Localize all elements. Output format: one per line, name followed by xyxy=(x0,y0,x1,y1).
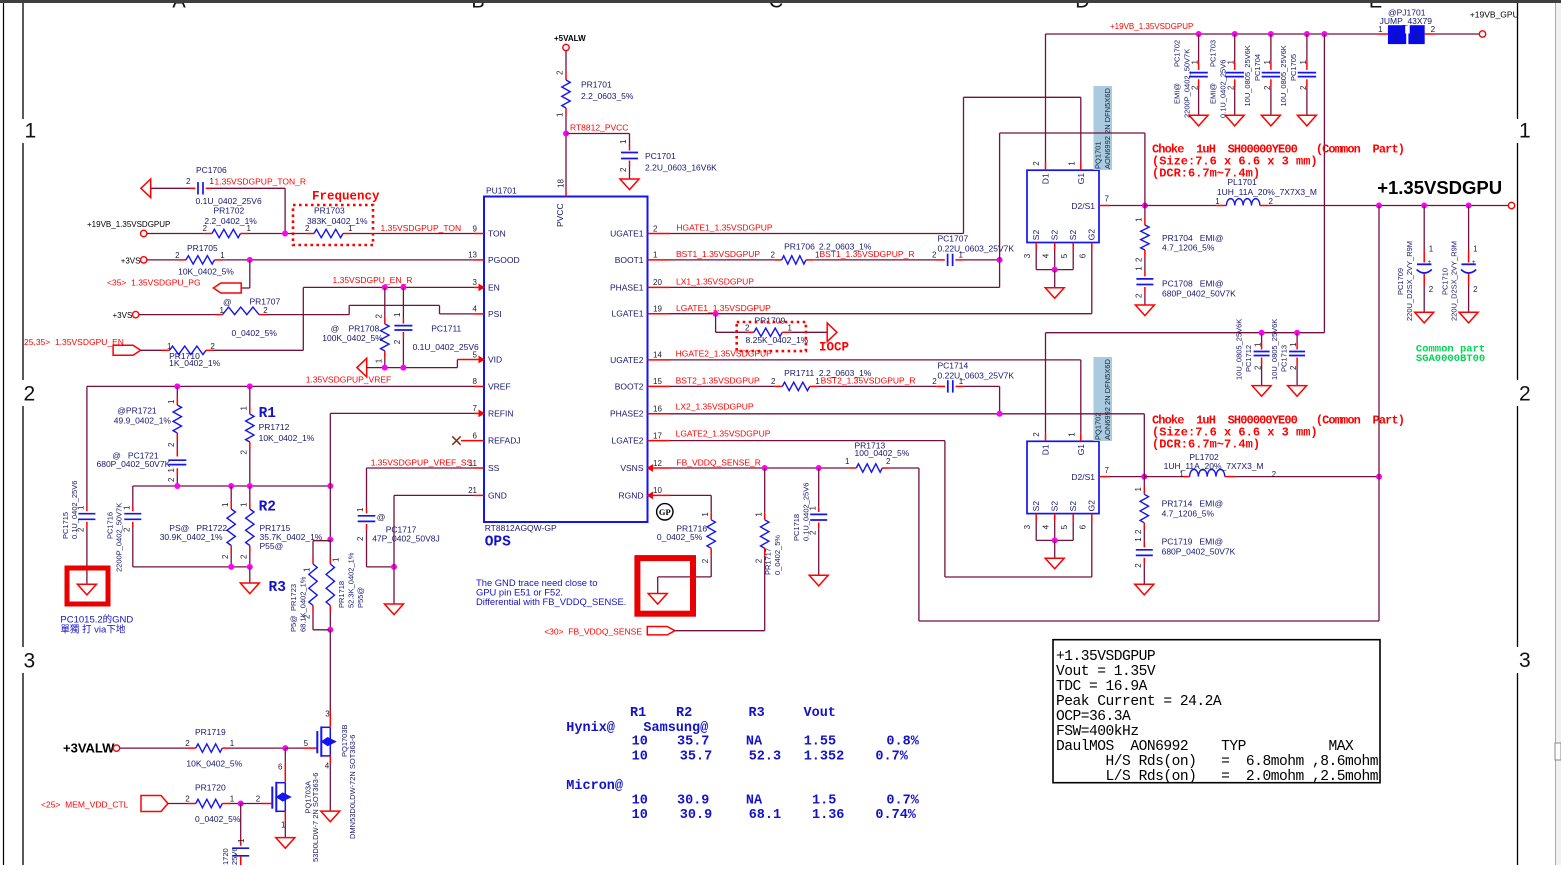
svg-text:18: 18 xyxy=(557,179,566,188)
svg-text:NA: NA xyxy=(746,735,763,750)
svg-text:2: 2 xyxy=(24,383,36,406)
svg-text:@: @ xyxy=(331,323,340,333)
svg-text:PR1719: PR1719 xyxy=(195,727,226,737)
svg-text:PVCC: PVCC xyxy=(555,203,565,227)
svg-text:GND: GND xyxy=(488,490,507,500)
svg-text:PC1709: PC1709 xyxy=(1396,268,1405,295)
svg-text:Vout = 1.35V: Vout = 1.35V xyxy=(1056,664,1156,680)
svg-text:PC1719 EMI@: PC1719 EMI@ xyxy=(1162,537,1224,547)
svg-text:+19VB_GPU: +19VB_GPU xyxy=(1470,10,1519,20)
svg-text:7: 7 xyxy=(473,404,478,413)
svg-text:2: 2 xyxy=(1473,285,1478,294)
svg-text:2: 2 xyxy=(375,314,384,319)
svg-text:2: 2 xyxy=(745,323,750,332)
svg-text:REFADJ: REFADJ xyxy=(488,436,521,446)
svg-text:10U_0805_25V6K: 10U_0805_25V6K xyxy=(1270,319,1279,380)
svg-text:1.35VSDGPUP_VREF: 1.35VSDGPUP_VREF xyxy=(306,375,392,385)
svg-text:5: 5 xyxy=(304,739,309,748)
svg-text:PR1718: PR1718 xyxy=(337,581,346,608)
svg-text:+: + xyxy=(1427,259,1431,266)
svg-text:PR1708: PR1708 xyxy=(349,323,380,333)
svg-text:2: 2 xyxy=(305,224,310,233)
svg-text:68.1: 68.1 xyxy=(749,808,781,823)
svg-text:Differential with FB_VDDQ_SENS: Differential with FB_VDDQ_SENSE. xyxy=(476,596,626,607)
svg-text:@PR1721: @PR1721 xyxy=(117,406,157,416)
svg-text:PC1701: PC1701 xyxy=(645,151,676,161)
svg-text:(DCR:6.7m~7.4m): (DCR:6.7m~7.4m) xyxy=(1152,438,1260,452)
svg-text:PR1720: PR1720 xyxy=(195,782,226,792)
svg-text:RGND: RGND xyxy=(618,490,643,500)
svg-text:1: 1 xyxy=(167,399,176,404)
svg-text:1: 1 xyxy=(25,120,37,143)
svg-text:PQ1701: PQ1701 xyxy=(1094,141,1103,169)
svg-text:PC1704: PC1704 xyxy=(1253,54,1262,81)
svg-text:68.1K_0402_1%: 68.1K_0402_1% xyxy=(299,576,308,632)
svg-text:2: 2 xyxy=(185,795,190,804)
svg-text:PHASE1: PHASE1 xyxy=(610,282,644,292)
svg-text:1: 1 xyxy=(1135,217,1144,222)
svg-text:S2: S2 xyxy=(1068,230,1078,241)
svg-text:1.36: 1.36 xyxy=(812,808,844,823)
svg-text:10U_0805_25V6K: 10U_0805_25V6K xyxy=(1279,45,1288,106)
svg-text:2: 2 xyxy=(303,614,312,619)
svg-text:(DCR:6.7m~7.4m): (DCR:6.7m~7.4m) xyxy=(1152,167,1260,181)
svg-text:OPS: OPS xyxy=(485,535,511,551)
svg-text:30.9K_0402_1%: 30.9K_0402_1% xyxy=(160,532,223,542)
svg-text:2: 2 xyxy=(1191,85,1200,90)
svg-text:BOOT2: BOOT2 xyxy=(615,381,644,391)
svg-text:1: 1 xyxy=(230,795,235,804)
svg-text:2: 2 xyxy=(1254,365,1263,370)
svg-text:1: 1 xyxy=(393,312,402,317)
svg-text:PR1711: PR1711 xyxy=(784,368,814,378)
svg-text:+3VALW: +3VALW xyxy=(63,741,115,756)
svg-text:D1: D1 xyxy=(1041,444,1051,455)
svg-text:3: 3 xyxy=(473,278,478,287)
svg-text:2: 2 xyxy=(263,306,268,315)
svg-text:VSNS: VSNS xyxy=(620,463,643,473)
svg-text:1: 1 xyxy=(1067,432,1076,437)
svg-text:PC1702: PC1702 xyxy=(1173,40,1182,67)
svg-text:PR1709: PR1709 xyxy=(755,316,786,326)
svg-text:Vout: Vout xyxy=(804,706,836,721)
svg-text:P55@: P55@ xyxy=(356,587,365,608)
svg-text:P5@ PR1723: P5@ PR1723 xyxy=(289,584,298,632)
svg-text:EMI@: EMI@ xyxy=(1173,83,1182,104)
svg-text:4.7_1206_5%: 4.7_1206_5% xyxy=(1162,509,1215,519)
svg-text:+3VS: +3VS xyxy=(121,256,141,265)
svg-text:2: 2 xyxy=(771,377,776,386)
svg-text:UGATE1: UGATE1 xyxy=(610,228,644,238)
svg-text:1: 1 xyxy=(1135,266,1144,271)
svg-text:PSI: PSI xyxy=(488,309,502,319)
svg-text:4: 4 xyxy=(1042,253,1051,258)
svg-text:1: 1 xyxy=(1254,342,1263,347)
svg-text:2.2_0603_5%: 2.2_0603_5% xyxy=(581,91,634,101)
svg-text:G2: G2 xyxy=(1087,229,1097,241)
svg-text:SS: SS xyxy=(488,463,500,473)
svg-text:HGATE1_1.35VSDGPUP: HGATE1_1.35VSDGPUP xyxy=(676,222,773,232)
svg-text:+1.35VSDGPU: +1.35VSDGPU xyxy=(1377,177,1502,198)
svg-text:1: 1 xyxy=(375,358,384,363)
svg-text:Hynix@: Hynix@ xyxy=(566,721,615,736)
svg-text:5: 5 xyxy=(1060,524,1069,529)
svg-text:1.35VSDGPUP_VREF_SS: 1.35VSDGPUP_VREF_SS xyxy=(371,458,473,468)
svg-text:1: 1 xyxy=(230,739,235,748)
svg-text:5: 5 xyxy=(1060,253,1069,258)
svg-text:+19VB_1.35VSDGPUP: +19VB_1.35VSDGPUP xyxy=(1110,22,1193,31)
svg-text:2: 2 xyxy=(256,795,261,804)
svg-text:1: 1 xyxy=(1215,197,1220,206)
svg-text:PC1708 EMI@: PC1708 EMI@ xyxy=(1162,279,1224,289)
svg-text:1: 1 xyxy=(356,507,365,512)
svg-text:25,35> 1.35VSDGPU_EN: 25,35> 1.35VSDGPU_EN xyxy=(24,337,124,347)
svg-text:2: 2 xyxy=(1429,285,1434,294)
svg-text:2: 2 xyxy=(185,739,190,748)
svg-text:1: 1 xyxy=(240,406,249,411)
svg-text:2: 2 xyxy=(653,224,658,233)
svg-text:PR1702: PR1702 xyxy=(214,206,245,216)
svg-text:10K_0402_5%: 10K_0402_5% xyxy=(178,267,234,277)
svg-text:PGOOD: PGOOD xyxy=(488,255,520,265)
svg-text:1: 1 xyxy=(1394,31,1399,40)
svg-text:2: 2 xyxy=(203,224,208,233)
svg-text:6: 6 xyxy=(473,431,478,440)
svg-text:Micron@: Micron@ xyxy=(566,779,623,794)
svg-text:S2: S2 xyxy=(1068,501,1078,512)
svg-text:2200P_0402_50V7K: 2200P_0402_50V7K xyxy=(115,503,124,572)
svg-text:4: 4 xyxy=(473,305,478,314)
svg-text:1: 1 xyxy=(123,505,132,510)
svg-text:BST2_1.35VSDGPUP_R: BST2_1.35VSDGPUP_R xyxy=(821,375,916,385)
svg-text:220U_D2SX_2VY_R9M: 220U_D2SX_2VY_R9M xyxy=(1405,241,1414,321)
svg-text:PR1703: PR1703 xyxy=(314,206,345,216)
svg-text:1: 1 xyxy=(701,512,710,517)
svg-text:LX2_1.35VSDGPUP: LX2_1.35VSDGPUP xyxy=(676,402,754,412)
svg-text:100_0402_5%: 100_0402_5% xyxy=(855,448,910,458)
svg-text:1: 1 xyxy=(959,377,964,386)
svg-text:52.3: 52.3 xyxy=(749,750,781,765)
svg-text:EN: EN xyxy=(488,282,500,292)
svg-text:R3: R3 xyxy=(269,580,286,596)
svg-text:<30> FB_VDDQ_SENSE: <30> FB_VDDQ_SENSE xyxy=(544,626,642,636)
svg-text:OCP=36.3A: OCP=36.3A xyxy=(1056,709,1131,725)
svg-text:1: 1 xyxy=(1134,487,1143,492)
svg-text:D2/S1: D2/S1 xyxy=(1071,472,1095,482)
svg-text:R2: R2 xyxy=(259,500,276,516)
svg-text:R2: R2 xyxy=(676,706,692,721)
svg-text:2: 2 xyxy=(1299,85,1308,90)
svg-text:2: 2 xyxy=(186,177,191,186)
svg-text:PHASE2: PHASE2 xyxy=(610,409,644,419)
svg-text:LGATE2_1.35VSDGPUP: LGATE2_1.35VSDGPUP xyxy=(676,428,771,438)
svg-text:PR1714 EMI@: PR1714 EMI@ xyxy=(1162,499,1224,509)
svg-text:10U_0805_25V6K: 10U_0805_25V6K xyxy=(1243,45,1252,106)
svg-text:1.35VSDGPUP_TON_R: 1.35VSDGPUP_TON_R xyxy=(215,176,307,186)
svg-text:VID: VID xyxy=(488,354,502,364)
svg-text:10: 10 xyxy=(632,808,648,823)
svg-text:PR1701: PR1701 xyxy=(581,80,612,90)
svg-text:2: 2 xyxy=(1135,293,1144,298)
svg-text:7: 7 xyxy=(1105,195,1110,204)
svg-text:1: 1 xyxy=(1473,245,1478,254)
svg-text:1: 1 xyxy=(1289,342,1298,347)
svg-text:680P_0402_50V7K: 680P_0402_50V7K xyxy=(1162,289,1236,299)
svg-text:0.74%: 0.74% xyxy=(875,808,916,823)
svg-text:3: 3 xyxy=(1023,253,1032,258)
svg-text:1: 1 xyxy=(754,512,763,517)
svg-text:2: 2 xyxy=(932,250,937,259)
svg-text:1: 1 xyxy=(220,306,225,315)
svg-text:2: 2 xyxy=(393,339,402,344)
svg-text:+1.35VSDGPUP: +1.35VSDGPUP xyxy=(1056,649,1155,665)
svg-text:D2/S1: D2/S1 xyxy=(1071,201,1095,211)
svg-text:30.9: 30.9 xyxy=(677,794,709,809)
svg-text:BOOT1: BOOT1 xyxy=(615,255,644,265)
svg-text:G1: G1 xyxy=(1076,173,1086,185)
svg-text:25V6: 25V6 xyxy=(230,847,239,865)
svg-text:1: 1 xyxy=(1067,161,1076,166)
svg-text:1.55: 1.55 xyxy=(804,735,836,750)
svg-text:6: 6 xyxy=(1079,253,1088,258)
svg-text:2: 2 xyxy=(240,554,249,559)
svg-text:D1: D1 xyxy=(1041,173,1051,184)
svg-text:2: 2 xyxy=(167,477,176,482)
svg-text:1: 1 xyxy=(220,251,225,260)
svg-text:PC1713: PC1713 xyxy=(1280,345,1289,372)
svg-text:BST1_1.35VSDGPUP: BST1_1.35VSDGPUP xyxy=(676,249,760,259)
svg-text:16: 16 xyxy=(653,405,662,414)
svg-text:2: 2 xyxy=(1032,432,1041,437)
svg-text:2: 2 xyxy=(210,342,215,351)
svg-text:10K_0402_1%: 10K_0402_1% xyxy=(259,433,315,443)
svg-text:RT8812AGQW-GP: RT8812AGQW-GP xyxy=(485,523,557,533)
svg-text:PC1710: PC1710 xyxy=(1441,268,1450,295)
svg-text:Frequency: Frequency xyxy=(312,190,380,204)
svg-text:PC1711: PC1711 xyxy=(431,323,461,333)
svg-text:2: 2 xyxy=(619,167,628,172)
svg-text:1: 1 xyxy=(348,224,353,233)
svg-text:NA: NA xyxy=(746,794,763,809)
svg-text:1: 1 xyxy=(1191,60,1200,65)
svg-text:2: 2 xyxy=(356,536,365,541)
svg-text:15: 15 xyxy=(653,377,662,386)
svg-text:1: 1 xyxy=(247,224,252,233)
svg-text:0_0402_5%: 0_0402_5% xyxy=(195,814,241,824)
svg-text:1: 1 xyxy=(788,323,793,332)
svg-text:<35> 1.35VSDGPU_PG: <35> 1.35VSDGPU_PG xyxy=(107,277,201,287)
svg-text:DMN53D0LDW-72N SOT363-6: DMN53D0LDW-72N SOT363-6 xyxy=(348,735,357,839)
svg-text:8.25K_0402_1%: 8.25K_0402_1% xyxy=(746,335,809,345)
svg-text:10: 10 xyxy=(632,794,648,809)
svg-text:1: 1 xyxy=(77,505,86,510)
svg-text:G1: G1 xyxy=(1076,444,1086,456)
svg-text:1: 1 xyxy=(1299,60,1308,65)
svg-text:2: 2 xyxy=(886,457,891,466)
svg-text:PC1712: PC1712 xyxy=(1244,345,1253,372)
svg-text:JUMP_43X79: JUMP_43X79 xyxy=(1380,16,1433,26)
svg-text:14: 14 xyxy=(653,351,662,360)
svg-text:PC1716: PC1716 xyxy=(106,512,115,539)
svg-text:30.9: 30.9 xyxy=(680,808,712,823)
svg-text:G2: G2 xyxy=(1087,500,1097,512)
svg-text:PC1718: PC1718 xyxy=(792,514,801,541)
svg-text:PR1706: PR1706 xyxy=(784,241,815,251)
svg-text:9: 9 xyxy=(473,224,478,233)
svg-text:13: 13 xyxy=(468,251,477,260)
svg-text:R3: R3 xyxy=(749,706,765,721)
svg-text:2: 2 xyxy=(167,442,176,447)
svg-text:IOCP: IOCP xyxy=(819,340,849,354)
svg-text:S2: S2 xyxy=(1031,501,1041,512)
svg-text:1: 1 xyxy=(237,838,246,843)
svg-text:1.35VSDGPU_EN_R: 1.35VSDGPU_EN_R xyxy=(333,275,413,285)
svg-text:<25> MEM_VDD_CTL: <25> MEM_VDD_CTL xyxy=(41,800,129,810)
svg-text:1: 1 xyxy=(221,502,230,507)
svg-text:3: 3 xyxy=(24,650,36,673)
svg-text:2: 2 xyxy=(77,527,86,532)
svg-text:1K_0402_1%: 1K_0402_1% xyxy=(169,358,220,368)
svg-text:R1: R1 xyxy=(630,706,646,721)
svg-text:2: 2 xyxy=(932,377,937,386)
svg-text:1: 1 xyxy=(303,567,312,572)
svg-text:3: 3 xyxy=(1519,649,1531,672)
svg-text:單獨 打 via下地: 單獨 打 via下地 xyxy=(60,623,125,635)
svg-text:47P_0402_50V8J: 47P_0402_50V8J xyxy=(372,533,440,543)
svg-text:1: 1 xyxy=(1429,245,1434,254)
svg-text:0.1U_0402_25V6: 0.1U_0402_25V6 xyxy=(196,196,262,206)
svg-text:2: 2 xyxy=(1415,31,1420,40)
svg-text:1.352: 1.352 xyxy=(804,750,845,765)
svg-text:7: 7 xyxy=(1105,466,1110,475)
svg-text:100K_0402_5%: 100K_0402_5% xyxy=(322,333,383,343)
svg-text:680P_0402_50V7K: 680P_0402_50V7K xyxy=(97,459,171,469)
svg-text:PC1707: PC1707 xyxy=(938,234,969,244)
svg-text:BST1_1.35VSDGPUP_R: BST1_1.35VSDGPUP_R xyxy=(820,249,915,259)
svg-text:1: 1 xyxy=(1134,537,1143,542)
svg-text:+19VB_1.35VSDGPUP: +19VB_1.35VSDGPUP xyxy=(87,220,170,229)
svg-text:VREF: VREF xyxy=(488,381,511,391)
svg-text:4: 4 xyxy=(325,762,330,771)
svg-text:UGATE2: UGATE2 xyxy=(610,355,644,365)
svg-text:S2: S2 xyxy=(1050,501,1060,512)
svg-text:FSW=400kHz: FSW=400kHz xyxy=(1056,724,1139,740)
svg-text:1: 1 xyxy=(556,112,565,117)
svg-text:PR1707: PR1707 xyxy=(250,297,281,307)
svg-text:49.9_0402_1%: 49.9_0402_1% xyxy=(114,415,172,425)
svg-text:2: 2 xyxy=(123,527,132,532)
svg-text:1UH_11A_20%_7X7X3_M: 1UH_11A_20%_7X7X3_M xyxy=(1217,187,1317,197)
svg-text:R1: R1 xyxy=(259,406,277,422)
svg-text:S2: S2 xyxy=(1050,230,1060,241)
svg-text:680P_0402_50V7K: 680P_0402_50V7K xyxy=(1162,547,1236,557)
svg-text:1: 1 xyxy=(845,457,850,466)
svg-text:4.7_1206_5%: 4.7_1206_5% xyxy=(1162,243,1215,253)
svg-text:12: 12 xyxy=(653,459,662,468)
svg-text:2: 2 xyxy=(1134,529,1143,534)
svg-text:LX1_1.35VSDGPUP: LX1_1.35VSDGPUP xyxy=(676,277,754,287)
svg-text:10U_0805_25V6K: 10U_0805_25V6K xyxy=(1235,319,1244,380)
svg-text:220U_D2SX_2VY_R9M: 220U_D2SX_2VY_R9M xyxy=(1450,241,1459,321)
svg-text:2: 2 xyxy=(1135,257,1144,262)
svg-text:PC1715: PC1715 xyxy=(61,512,70,539)
svg-text:PR1704 EMI@: PR1704 EMI@ xyxy=(1162,233,1224,243)
svg-text:GP: GP xyxy=(659,507,671,517)
svg-text:AON6992 2N DFN5X6D: AON6992 2N DFN5X6D xyxy=(1103,359,1112,440)
svg-text:2: 2 xyxy=(1269,197,1274,206)
svg-text:6: 6 xyxy=(278,763,283,772)
svg-text:3: 3 xyxy=(1023,524,1032,529)
svg-text:1.5: 1.5 xyxy=(812,794,836,809)
svg-text:2200P_0402_50V7K: 2200P_0402_50V7K xyxy=(1183,49,1192,118)
svg-text:2.2U_0603_16V6K: 2.2U_0603_16V6K xyxy=(645,163,717,173)
svg-text:+3VS: +3VS xyxy=(113,311,133,320)
svg-text:2: 2 xyxy=(1227,85,1236,90)
svg-text:53D0LDW-7 2N SOT363-6: 53D0LDW-7 2N SOT363-6 xyxy=(311,773,320,862)
svg-text:SGA0000BT00: SGA0000BT00 xyxy=(1416,353,1485,365)
svg-text:PR1705: PR1705 xyxy=(187,243,218,253)
svg-text:19: 19 xyxy=(653,305,662,314)
svg-text:2: 2 xyxy=(754,558,763,563)
svg-text:1: 1 xyxy=(1519,120,1531,143)
svg-text:2: 2 xyxy=(556,70,565,75)
svg-text:LGATE1: LGATE1 xyxy=(612,309,644,319)
svg-text:0.1U_0402_25V6: 0.1U_0402_25V6 xyxy=(1219,60,1228,118)
svg-text:35.7: 35.7 xyxy=(680,750,712,765)
svg-text:10K_0402_5%: 10K_0402_5% xyxy=(186,759,242,769)
svg-text:LGATE2: LGATE2 xyxy=(612,436,644,446)
svg-text:PC1703: PC1703 xyxy=(1209,40,1218,67)
svg-text:2: 2 xyxy=(240,450,249,455)
svg-text:PC1705: PC1705 xyxy=(1289,54,1298,81)
svg-text:PQ1702: PQ1702 xyxy=(1094,412,1103,440)
svg-text:0_0402_5%: 0_0402_5% xyxy=(232,328,278,338)
svg-text:2: 2 xyxy=(701,558,710,563)
svg-text:10: 10 xyxy=(632,735,648,750)
svg-text:1720: 1720 xyxy=(221,848,230,865)
svg-text:EMI@: EMI@ xyxy=(1209,83,1218,104)
svg-text:2: 2 xyxy=(771,250,776,259)
svg-text:AON6992 2N DFN5X6D: AON6992 2N DFN5X6D xyxy=(1103,88,1112,169)
svg-text:H/S Rds(on) = 6.8mohm ,8.6m: H/S Rds(on) = 6.8mohm ,8.6mohm xyxy=(1056,754,1379,770)
svg-text:LGATE1_1.35VSDGPUP: LGATE1_1.35VSDGPUP xyxy=(676,303,771,313)
svg-text:P55@: P55@ xyxy=(260,541,284,551)
svg-text:2: 2 xyxy=(1134,563,1143,568)
svg-text:52.3K_0402_1%: 52.3K_0402_1% xyxy=(347,552,356,608)
svg-text:10: 10 xyxy=(632,750,648,765)
svg-text:1: 1 xyxy=(619,139,628,144)
svg-text:@: @ xyxy=(223,297,232,307)
svg-text:0.7%: 0.7% xyxy=(886,794,919,809)
svg-text:1: 1 xyxy=(1227,60,1236,65)
svg-text:+: + xyxy=(1472,259,1476,266)
svg-text:0.8%: 0.8% xyxy=(886,735,919,750)
svg-text:2: 2 xyxy=(221,554,230,559)
svg-text:2: 2 xyxy=(1519,383,1531,406)
svg-text:S2: S2 xyxy=(1031,230,1041,241)
svg-text:35.7: 35.7 xyxy=(677,735,709,750)
svg-text:2: 2 xyxy=(175,251,180,260)
svg-text:FB_VDDQ_SENSE_R: FB_VDDQ_SENSE_R xyxy=(676,457,761,467)
svg-text:1: 1 xyxy=(959,250,964,259)
svg-text:TON: TON xyxy=(488,228,506,238)
svg-text:@: @ xyxy=(377,512,386,522)
svg-text:1: 1 xyxy=(1263,60,1272,65)
svg-text:2: 2 xyxy=(1272,470,1277,479)
svg-text:PR1712: PR1712 xyxy=(259,422,290,432)
svg-text:17: 17 xyxy=(653,431,662,440)
svg-text:1: 1 xyxy=(332,557,341,562)
